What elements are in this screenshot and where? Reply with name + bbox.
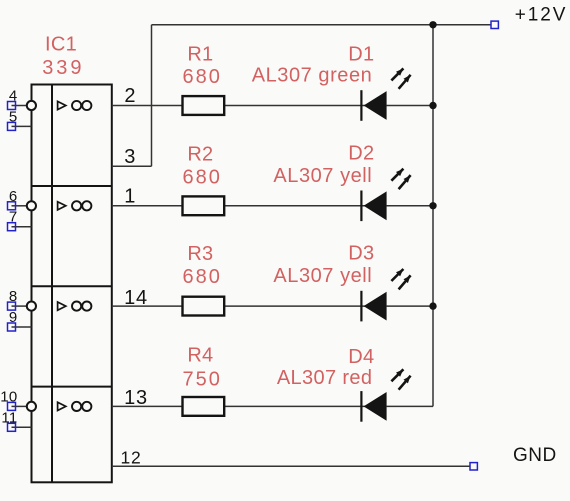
svg-text:IC1: IC1 bbox=[45, 34, 77, 56]
svg-text:9: 9 bbox=[9, 309, 18, 326]
svg-text:D3: D3 bbox=[348, 242, 374, 264]
svg-text:1: 1 bbox=[124, 186, 136, 208]
svg-text:R1: R1 bbox=[187, 43, 213, 65]
svg-text:D4: D4 bbox=[348, 346, 374, 368]
svg-text:11: 11 bbox=[1, 409, 17, 426]
svg-text:+12V: +12V bbox=[515, 5, 568, 26]
svg-text:D1: D1 bbox=[348, 44, 374, 66]
svg-text:AL307 red: AL307 red bbox=[277, 367, 372, 389]
svg-text:3: 3 bbox=[124, 146, 136, 168]
svg-text:750: 750 bbox=[183, 368, 222, 390]
svg-text:10: 10 bbox=[0, 388, 17, 405]
svg-text:680: 680 bbox=[183, 266, 222, 288]
svg-text:R2: R2 bbox=[187, 143, 213, 165]
svg-text:7: 7 bbox=[9, 209, 18, 226]
svg-text:AL307 yell: AL307 yell bbox=[273, 265, 372, 287]
svg-text:2: 2 bbox=[124, 85, 136, 107]
svg-text:AL307 green: AL307 green bbox=[252, 65, 373, 87]
svg-text:R3: R3 bbox=[187, 243, 213, 265]
svg-text:4: 4 bbox=[9, 88, 18, 105]
svg-text:5: 5 bbox=[9, 108, 18, 125]
svg-text:6: 6 bbox=[9, 188, 18, 205]
svg-text:D2: D2 bbox=[348, 143, 374, 165]
svg-text:680: 680 bbox=[183, 66, 222, 88]
svg-text:AL307 yell: AL307 yell bbox=[273, 165, 372, 187]
svg-text:14: 14 bbox=[124, 287, 148, 309]
svg-text:8: 8 bbox=[9, 288, 18, 305]
svg-text:680: 680 bbox=[183, 166, 222, 188]
svg-text:13: 13 bbox=[124, 387, 148, 409]
svg-text:339: 339 bbox=[42, 57, 84, 79]
svg-text:12: 12 bbox=[121, 447, 142, 467]
svg-text:GND: GND bbox=[513, 445, 557, 466]
svg-text:R4: R4 bbox=[187, 345, 213, 367]
